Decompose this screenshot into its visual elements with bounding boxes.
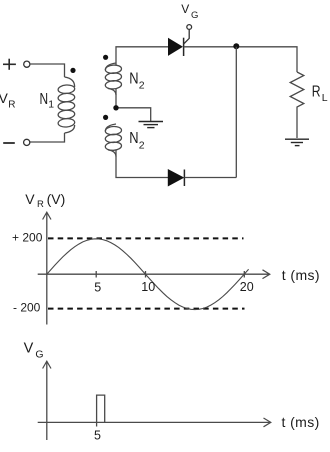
svg-text:R: R: [8, 99, 15, 110]
wire center tap: [116, 89, 151, 122]
terminal top open circle: [24, 61, 30, 67]
svg-text:1: 1: [48, 98, 54, 110]
wire secondary bottom: [116, 150, 168, 178]
svg-text:5: 5: [94, 428, 101, 442]
dot N2 upper polarity: [103, 55, 108, 60]
VR x-axis: [38, 273, 269, 275]
svg-text:2: 2: [139, 139, 145, 151]
svg-text:10: 10: [141, 280, 155, 294]
svg-text:2: 2: [139, 80, 145, 92]
wire bottom-left: [30, 133, 65, 142]
VG y-axis: [46, 361, 48, 440]
svg-text:N: N: [129, 130, 138, 147]
svg-text:t (ms): t (ms): [282, 267, 320, 283]
svg-text:V: V: [181, 2, 189, 16]
dot N2 lower polarity: [103, 115, 108, 120]
svg-text:G: G: [191, 10, 198, 21]
+ terminal: [3, 59, 16, 70]
svg-text:R: R: [37, 199, 44, 210]
dot center tap junction: [113, 105, 118, 110]
tick 10: [145, 271, 147, 278]
inductor N2 upper: [105, 63, 122, 95]
pulse VG: [97, 395, 105, 426]
diode D2: [168, 170, 184, 187]
inductor N2 lower: [105, 124, 122, 157]
svg-text:G: G: [35, 349, 43, 361]
svg-text:20: 20: [240, 280, 254, 294]
dot top junction: [233, 43, 239, 49]
dashed -200: [48, 308, 245, 310]
svg-text:V: V: [24, 341, 34, 357]
terminal bottom open circle: [24, 139, 30, 145]
svg-text:L: L: [322, 92, 328, 104]
dot N1 polarity: [70, 68, 75, 73]
wire right vertical: [235, 47, 237, 178]
dashed +200: [48, 237, 244, 239]
svg-text:R: R: [312, 83, 321, 100]
svg-text:N: N: [129, 71, 138, 88]
svg-text:+ 200: + 200: [12, 231, 43, 245]
tick 20: [243, 271, 245, 278]
- terminal: [3, 142, 15, 144]
svg-text:(V): (V): [47, 191, 66, 207]
svg-text:V: V: [25, 191, 35, 207]
ground center: [139, 122, 164, 128]
wire top-left: [30, 64, 65, 77]
svg-text:t (ms): t (ms): [282, 414, 320, 430]
VR y-axis: [46, 213, 48, 325]
wire secondary top: [116, 47, 168, 65]
svg-text:5: 5: [94, 281, 101, 295]
SCR D1: [169, 25, 192, 56]
VG x-axis: [38, 421, 270, 423]
resistor RL: [290, 72, 304, 138]
wire bottom rail: [184, 177, 236, 179]
tick 5: [95, 271, 97, 278]
ground RL: [285, 139, 309, 145]
svg-text:- 200: - 200: [13, 300, 41, 314]
wire top rail: [184, 47, 297, 72]
inductor N1: [58, 77, 75, 133]
sine wave VR: [47, 239, 249, 310]
svg-text:N: N: [40, 91, 49, 108]
